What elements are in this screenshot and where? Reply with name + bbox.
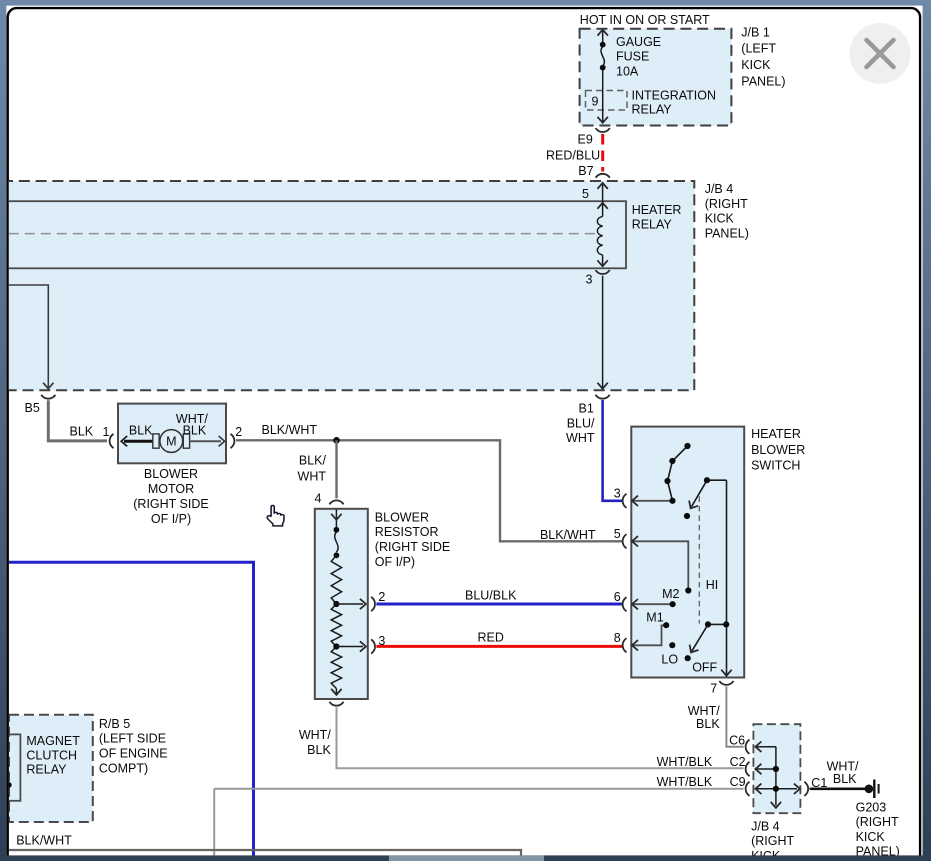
svg-text:7: 7 xyxy=(710,681,717,695)
svg-text:4: 4 xyxy=(315,491,322,505)
svg-text:5: 5 xyxy=(614,527,621,541)
svg-text:RED/BLU: RED/BLU xyxy=(546,148,600,162)
svg-text:B1: B1 xyxy=(579,402,594,416)
svg-text:GAUGE: GAUGE xyxy=(616,35,661,49)
svg-text:HEATER: HEATER xyxy=(632,203,682,217)
svg-text:PANEL): PANEL) xyxy=(741,75,785,89)
svg-text:BLK: BLK xyxy=(70,425,94,439)
svg-text:OF I/P): OF I/P) xyxy=(151,512,191,526)
svg-text:OF ENGINE: OF ENGINE xyxy=(99,747,168,761)
svg-text:WHT/BLK: WHT/BLK xyxy=(657,755,713,769)
svg-text:10A: 10A xyxy=(616,65,639,79)
svg-text:OFF: OFF xyxy=(692,661,717,675)
svg-text:(RIGHT: (RIGHT xyxy=(856,815,899,829)
svg-text:INTEGRATION: INTEGRATION xyxy=(632,89,717,103)
svg-text:WHT/BLK: WHT/BLK xyxy=(657,775,713,789)
svg-text:(LEFT: (LEFT xyxy=(741,42,776,56)
svg-text:WHT: WHT xyxy=(566,431,595,445)
svg-text:BLOWER: BLOWER xyxy=(751,443,805,457)
svg-text:M2: M2 xyxy=(662,587,679,601)
svg-text:J/B 4: J/B 4 xyxy=(751,819,780,833)
svg-text:(LEFT SIDE: (LEFT SIDE xyxy=(99,732,166,746)
svg-text:BLK/: BLK/ xyxy=(299,453,327,467)
svg-text:(RIGHT SIDE: (RIGHT SIDE xyxy=(133,497,208,511)
svg-text:BLK/WHT: BLK/WHT xyxy=(16,833,72,847)
svg-text:R/B 5: R/B 5 xyxy=(99,717,130,731)
svg-text:HEATER: HEATER xyxy=(751,427,801,441)
svg-text:BLU/BLK: BLU/BLK xyxy=(465,589,517,603)
svg-text:PANEL): PANEL) xyxy=(705,226,749,240)
svg-text:BLK: BLK xyxy=(307,743,331,757)
svg-text:1: 1 xyxy=(103,425,110,439)
svg-text:SWITCH: SWITCH xyxy=(751,459,800,473)
svg-text:WHT: WHT xyxy=(298,470,327,484)
svg-text:BLK/WHT: BLK/WHT xyxy=(540,528,596,542)
svg-text:RELAY: RELAY xyxy=(632,217,673,231)
svg-text:3: 3 xyxy=(614,487,621,501)
svg-text:RESISTOR: RESISTOR xyxy=(375,525,439,539)
svg-text:RELAY: RELAY xyxy=(632,102,673,116)
svg-text:MOTOR: MOTOR xyxy=(148,482,194,496)
svg-text:HOT IN ON OR START: HOT IN ON OR START xyxy=(580,13,710,27)
svg-text:BLU/: BLU/ xyxy=(567,416,595,430)
svg-text:5: 5 xyxy=(582,187,589,201)
svg-text:WHT/: WHT/ xyxy=(688,704,720,718)
svg-text:2: 2 xyxy=(378,590,385,604)
svg-text:J/B 4: J/B 4 xyxy=(705,182,734,196)
svg-text:J/B 1: J/B 1 xyxy=(741,25,770,39)
svg-text:8: 8 xyxy=(614,631,621,645)
svg-text:9: 9 xyxy=(592,94,599,108)
svg-text:BLK/WHT: BLK/WHT xyxy=(262,423,318,437)
svg-text:BLK: BLK xyxy=(696,717,720,731)
svg-text:C6: C6 xyxy=(729,734,745,748)
svg-text:(RIGHT: (RIGHT xyxy=(751,834,794,848)
svg-text:BLK: BLK xyxy=(833,772,857,786)
svg-text:FUSE: FUSE xyxy=(616,50,649,64)
svg-text:6: 6 xyxy=(614,590,621,604)
svg-text:M: M xyxy=(166,435,176,449)
svg-text:BLOWER: BLOWER xyxy=(144,467,198,481)
svg-text:BLK: BLK xyxy=(129,423,153,437)
svg-text:3: 3 xyxy=(586,273,593,287)
svg-text:(RIGHT: (RIGHT xyxy=(705,197,748,211)
svg-text:M1: M1 xyxy=(646,610,663,624)
svg-text:KICK: KICK xyxy=(741,58,771,72)
svg-text:G203: G203 xyxy=(856,800,887,814)
svg-text:LO: LO xyxy=(661,652,678,666)
svg-text:MAGNET: MAGNET xyxy=(26,734,80,748)
svg-text:3: 3 xyxy=(378,634,385,648)
svg-text:(RIGHT SIDE: (RIGHT SIDE xyxy=(375,540,450,554)
svg-text:COMPT): COMPT) xyxy=(99,762,148,776)
svg-text:BLK: BLK xyxy=(183,423,207,437)
svg-text:KICK: KICK xyxy=(705,212,735,226)
svg-text:C2: C2 xyxy=(730,755,746,769)
svg-text:RELAY: RELAY xyxy=(26,763,67,777)
svg-text:KICK: KICK xyxy=(856,830,886,844)
svg-text:C9: C9 xyxy=(730,775,746,789)
svg-text:HI: HI xyxy=(706,578,719,592)
svg-text:WHT/: WHT/ xyxy=(299,728,331,742)
svg-text:C1: C1 xyxy=(811,776,827,790)
svg-text:OF I/P): OF I/P) xyxy=(375,555,415,569)
svg-text:CLUTCH: CLUTCH xyxy=(26,748,77,762)
svg-text:E9: E9 xyxy=(578,133,593,147)
svg-text:RED: RED xyxy=(477,631,503,645)
svg-text:BLOWER: BLOWER xyxy=(375,510,429,524)
svg-text:B7: B7 xyxy=(578,164,593,178)
svg-text:2: 2 xyxy=(235,425,242,439)
svg-text:B5: B5 xyxy=(25,401,40,415)
